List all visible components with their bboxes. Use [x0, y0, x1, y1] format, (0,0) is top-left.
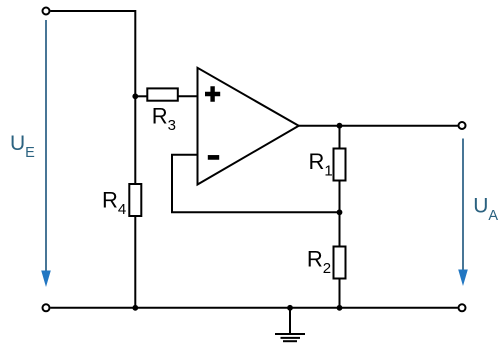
resistor R4 [129, 184, 141, 216]
voltage arrow UE [41, 20, 51, 287]
op-amp U1 [198, 68, 299, 185]
node E: junction ground [287, 305, 293, 311]
wire feedback node down to R2 [339, 212, 341, 247]
wire R1 to feedback node [339, 180, 341, 212]
node F: junction R2 bottom [337, 305, 343, 311]
terminal output top-right [459, 122, 466, 129]
wire feedback from minus input down and right [172, 155, 340, 213]
wire bottom rail [50, 307, 458, 309]
resistor R1 [334, 149, 346, 181]
terminal bottom-right [459, 304, 466, 311]
wire output node down to R1 [339, 126, 341, 149]
voltage arrow UA [458, 139, 468, 287]
wire top rail from input terminal to corner [50, 11, 135, 184]
wire below R4 down to bottom rail [134, 216, 136, 308]
node A: junction R3 branch [132, 93, 138, 99]
terminal bottom-left [43, 304, 50, 311]
wire R2 to bottom rail [339, 278, 341, 308]
wire R3 to op-amp plus input [178, 95, 198, 97]
ground [275, 308, 305, 341]
node C: junction feedback [337, 209, 343, 215]
resistor R3 [147, 88, 178, 100]
terminal top-left [43, 8, 50, 15]
node B: junction output [337, 123, 343, 129]
wire op-amp output to output terminal [299, 125, 458, 127]
node D: junction left bottom rail [132, 305, 138, 311]
wire from node to R3 [135, 95, 147, 97]
resistor R2 [334, 247, 346, 279]
